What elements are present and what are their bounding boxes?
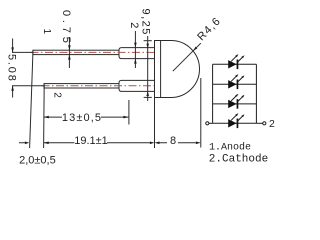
R4.6 leader line: [173, 43, 201, 71]
extension line 13dim right: [128, 100, 130, 125]
dimension 13 line: [44, 116, 129, 118]
terminal 1 circle: [206, 122, 209, 125]
svg-text:2: 2: [52, 92, 63, 98]
dimension 8 line: [160, 142, 196, 144]
svg-text:5.08: 5.08: [5, 54, 17, 83]
emission arrows D3: [231, 95, 243, 102]
dimension 19.1 line left part: [19, 142, 150, 144]
extension line lead2 tip: [43, 84, 46, 148]
arrow 9.25 bottom: [146, 91, 149, 96]
arrow 5.08 top: [11, 47, 14, 52]
svg-text:1.Anode: 1.Anode: [209, 142, 251, 154]
dimension 0.75 line: [68, 37, 70, 68]
svg-text:13±0,5: 13±0,5: [62, 112, 102, 124]
LED D2: [228, 80, 236, 88]
lead pin2 wide section: [119, 80, 155, 91]
svg-text:2.Cathode: 2.Cathode: [209, 154, 268, 166]
terminal 1 stub: [209, 122, 213, 124]
arrow 0.75 bottom: [68, 55, 71, 60]
wire row3: [213, 103, 257, 105]
arrowheads: [11, 43, 201, 145]
centerline pin2: [42, 85, 155, 87]
centerline pin1: [31, 51, 155, 53]
arrow 5.08 bottom: [11, 86, 14, 91]
svg-text:1: 1: [41, 29, 52, 35]
svg-text:0.75: 0.75: [60, 10, 72, 47]
arrow 13 right: [123, 116, 128, 119]
svg-text:2: 2: [269, 118, 275, 130]
arrow R4.6: [193, 47, 197, 51]
arrow 0.75 top: [68, 45, 71, 50]
svg-text:8: 8: [170, 135, 176, 147]
arrow 13 left: [44, 116, 49, 119]
arrow 8 right: [196, 142, 201, 145]
emission arrows D4: [231, 115, 243, 122]
svg-text:2: 2: [128, 22, 140, 28]
schematic 4 parallel LEDs: [206, 64, 266, 125]
dimension 9.25 line: [147, 36, 149, 101]
extension line body face: [154, 98, 156, 149]
dimension 9.25 tick bottom: [144, 96, 152, 98]
lead pin1 thin body: [33, 50, 120, 54]
LED D3: [228, 100, 236, 108]
extension line dome right: [200, 78, 202, 148]
rail right: [255, 64, 257, 123]
svg-text:19.1±1: 19.1±1: [74, 135, 108, 147]
arrow 9.25 top: [146, 44, 149, 49]
LED D4: [228, 119, 236, 127]
arrow 2.0 left: [25, 142, 30, 145]
extension line lead1 tip: [30, 50, 33, 148]
emission arrows D2: [231, 76, 243, 83]
LED D1: [228, 60, 236, 68]
arrow 2 top: [134, 43, 137, 48]
wire row4: [213, 122, 257, 124]
arrow 8 left: [155, 142, 160, 145]
terminal 2 circle: [263, 122, 266, 125]
wire row1: [213, 63, 257, 65]
arrow 19.1 right: [150, 142, 155, 145]
dimension 5.08 tick top: [12, 51, 33, 53]
dimension 5.08 tick bottom: [12, 85, 44, 87]
svg-text:9,25: 9,25: [139, 9, 151, 36]
LED body outline: [155, 41, 200, 98]
rail left: [212, 64, 214, 123]
emission arrows D1: [231, 56, 243, 63]
lead pin1 wide section: [119, 48, 155, 59]
arrow 2 bottom: [134, 59, 137, 64]
dimension 5.08 line: [12, 39, 14, 98]
svg-text:2,0±0,5: 2,0±0,5: [19, 155, 56, 167]
wire row2: [213, 83, 257, 85]
arrow 2.0 right: [44, 142, 49, 145]
terminal 2 stub: [256, 122, 262, 124]
dimension 9.25 tick top: [144, 40, 152, 42]
lead pin2 thin body: [44, 84, 120, 88]
LED flange line: [160, 41, 162, 98]
dimension 2 line: [134, 31, 136, 68]
